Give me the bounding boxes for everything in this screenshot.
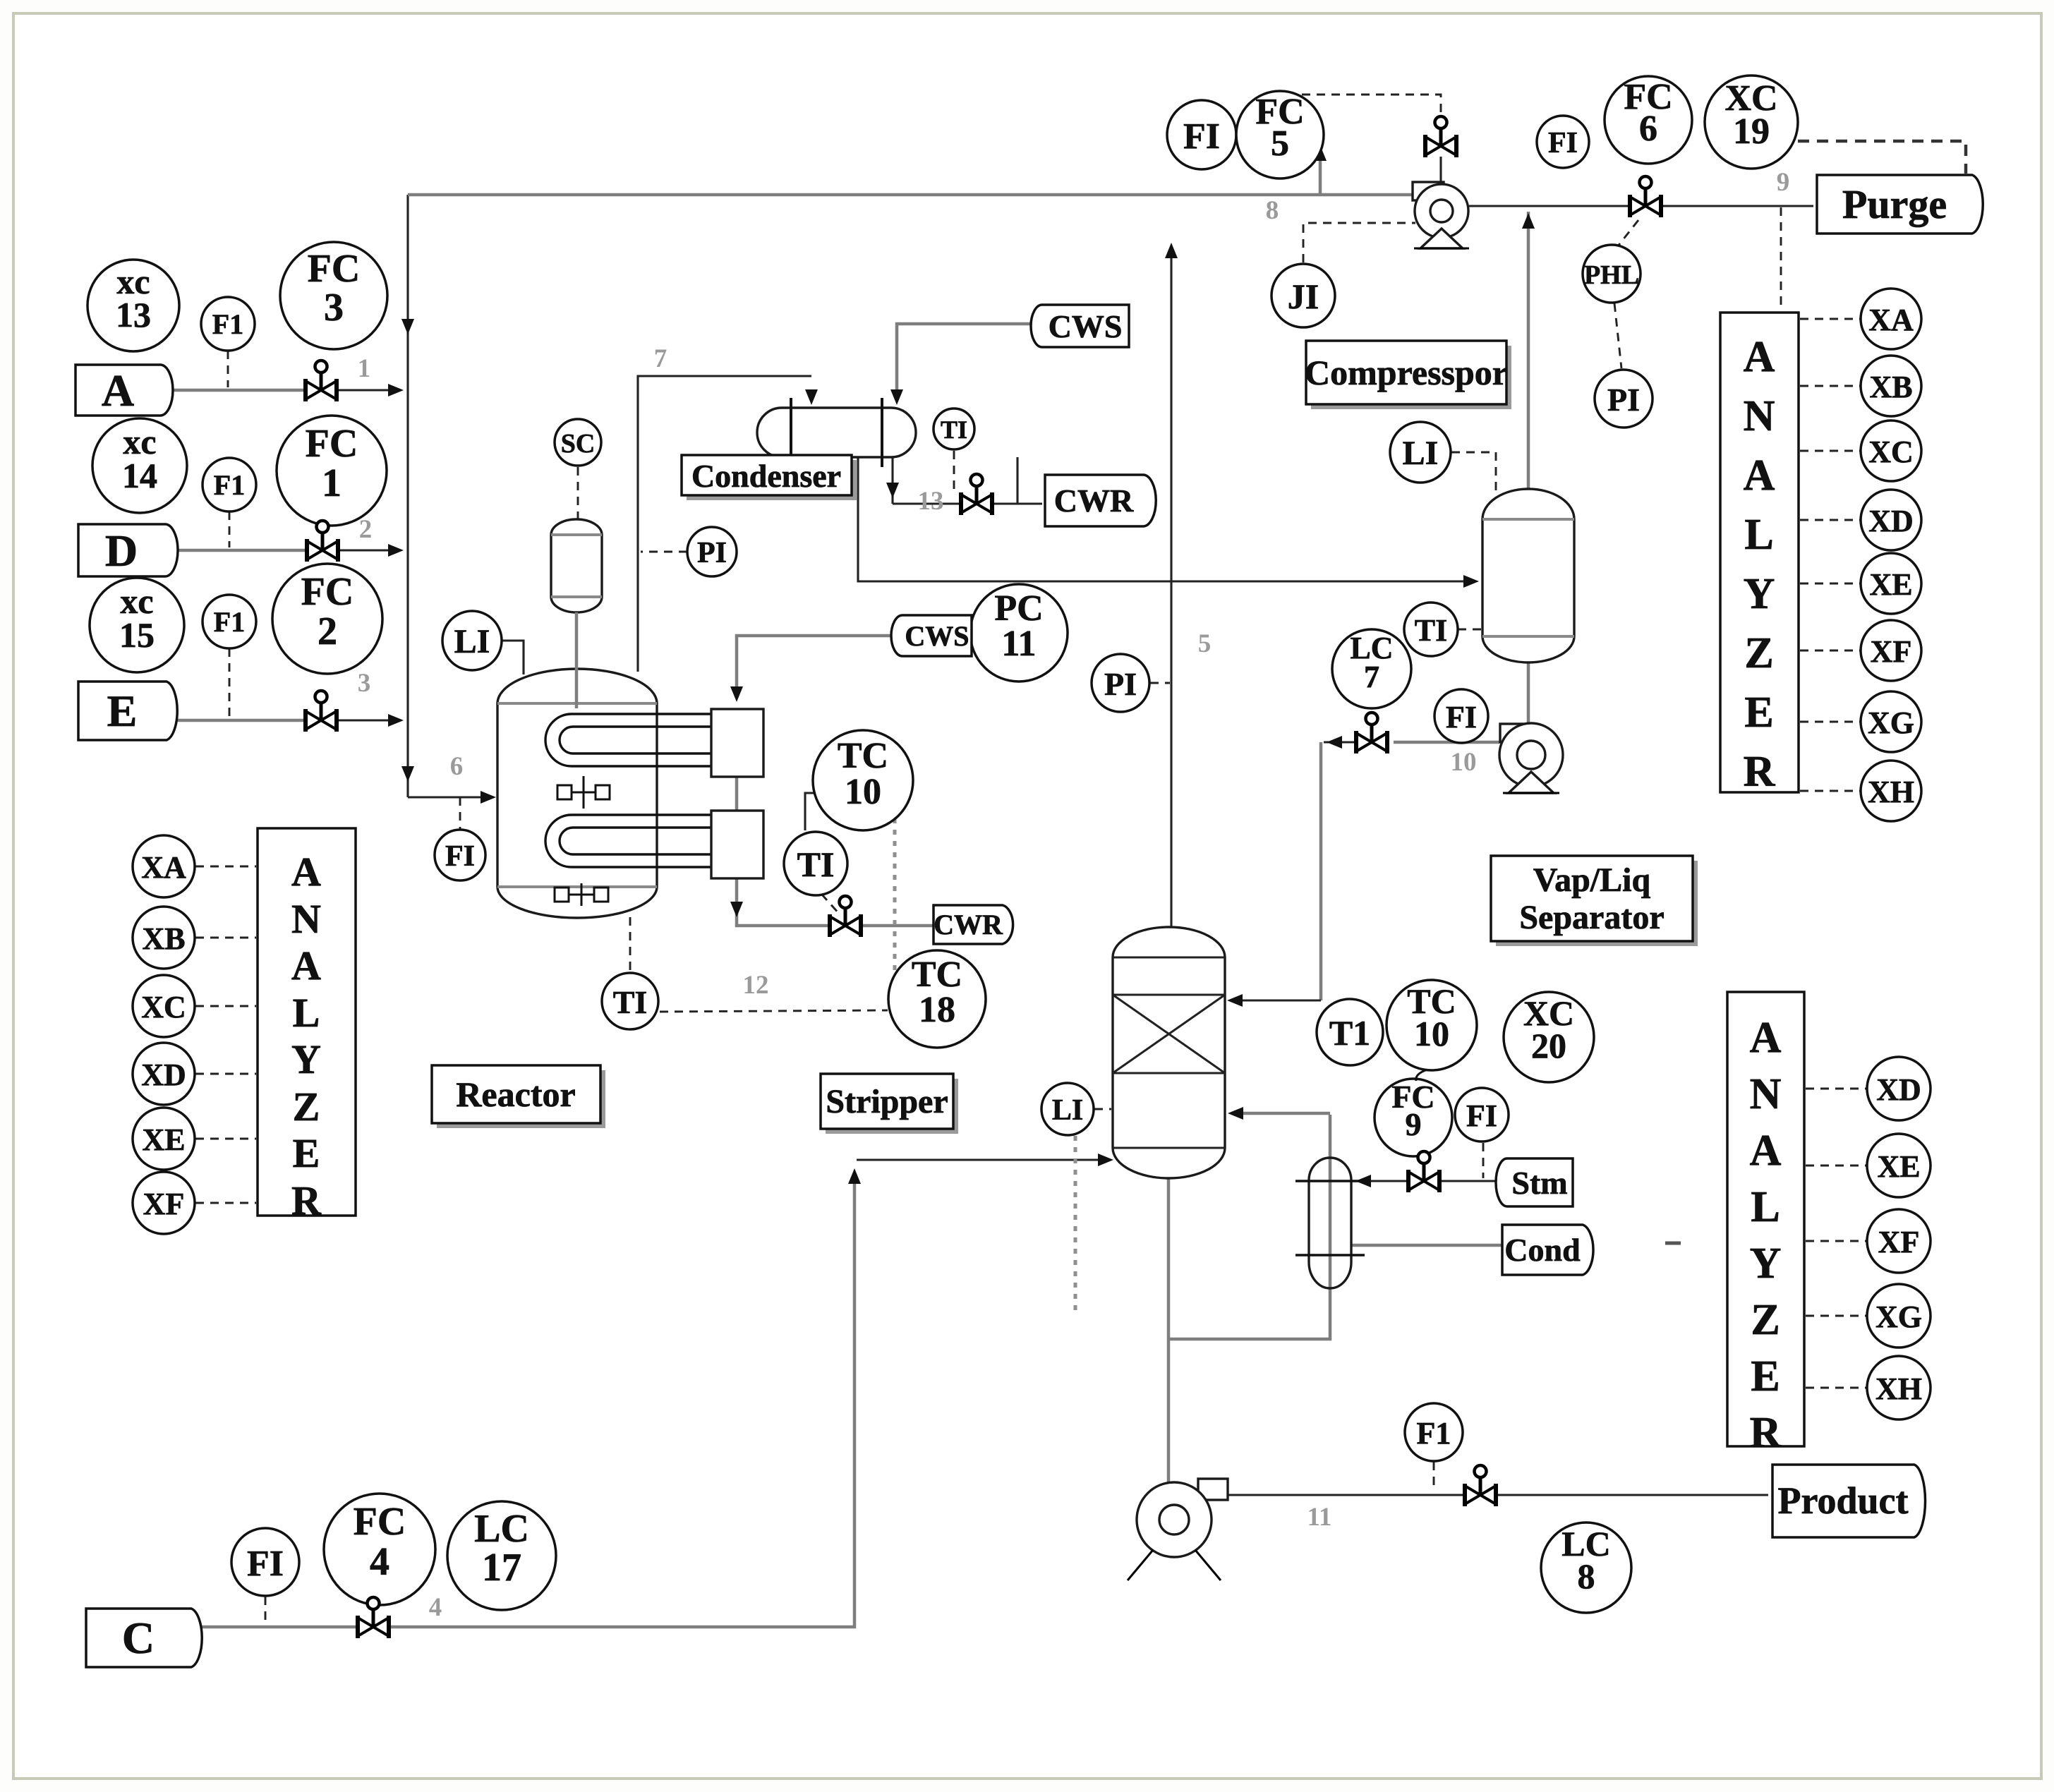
instrument TI condenser bbox=[934, 408, 974, 449]
svg-text:11: 11 bbox=[1307, 1503, 1332, 1532]
svg-text:LC: LC bbox=[474, 1507, 529, 1551]
wire steam valve to reboiler bbox=[1360, 1180, 1408, 1182]
svg-text:A: A bbox=[291, 943, 321, 988]
svg-text:9: 9 bbox=[1777, 168, 1790, 197]
signal TI reactor-cool to valve bbox=[821, 894, 840, 914]
svg-text:Y: Y bbox=[1744, 570, 1775, 618]
signal JI to compressor bbox=[1303, 223, 1415, 262]
svg-text:XE: XE bbox=[1877, 1149, 1920, 1184]
signal FC6 PHL slant bbox=[1617, 220, 1638, 247]
wire condenser CWS line bbox=[897, 324, 1038, 395]
wire separator overhead bbox=[1527, 212, 1530, 489]
svg-text:Stripper: Stripper bbox=[826, 1083, 948, 1120]
signal TC10 to TC18 gray bbox=[893, 818, 897, 991]
svg-text:10: 10 bbox=[1451, 748, 1477, 777]
instrument F1a bbox=[201, 297, 255, 351]
wire feed header vertical x578 bbox=[406, 195, 409, 797]
instrument TC18 bbox=[888, 950, 986, 1048]
svg-text:XH: XH bbox=[1875, 1372, 1922, 1406]
stray mark near Cond bbox=[1665, 1242, 1681, 1245]
instrument XC19 bbox=[1705, 75, 1798, 169]
instrument FI purge bbox=[1537, 116, 1589, 168]
wire feed D gray bbox=[165, 549, 306, 552]
signal TC10 link bbox=[805, 793, 822, 830]
svg-text:A: A bbox=[1744, 452, 1775, 500]
arrow separator overhead tip bbox=[1522, 213, 1535, 229]
svg-text:XA: XA bbox=[141, 850, 186, 885]
wire sep pump outlet bbox=[1394, 741, 1499, 744]
svg-text:6: 6 bbox=[450, 752, 464, 781]
arrow stream 4 up arrow bbox=[848, 1168, 861, 1184]
svg-text:10: 10 bbox=[1414, 1014, 1449, 1053]
svg-text:FC: FC bbox=[301, 570, 354, 614]
arrow steam tip bbox=[1355, 1175, 1371, 1187]
stream tag CWR condenser bbox=[1045, 475, 1156, 526]
svg-text:Z: Z bbox=[1751, 1296, 1780, 1344]
instrument FI reactor bbox=[435, 830, 485, 880]
svg-text:CWR: CWR bbox=[934, 909, 1003, 940]
svg-text:8: 8 bbox=[1578, 1556, 1595, 1596]
valve V feed C bbox=[358, 1597, 389, 1638]
stripper cap lines bbox=[1113, 956, 1225, 958]
signal analyzerR1 stub 3 bbox=[1800, 519, 1860, 521]
wire stripper top feed bbox=[1231, 999, 1321, 1001]
signal analyzerR2 stub 2 bbox=[1806, 1240, 1866, 1242]
instrument XA right1 bbox=[1861, 289, 1921, 349]
signal FI reactor to stream6 bbox=[459, 797, 461, 830]
wire stub under condenser bbox=[1016, 457, 1018, 504]
instrument XC left bbox=[133, 975, 195, 1037]
svg-text:6: 6 bbox=[1639, 109, 1657, 149]
svg-text:CWR: CWR bbox=[1054, 483, 1134, 519]
wire compressor outlet bbox=[1469, 205, 1813, 207]
instrument FC2 bbox=[272, 564, 382, 674]
svg-text:FI: FI bbox=[445, 840, 475, 873]
svg-text:N: N bbox=[1750, 1070, 1782, 1118]
instrument FC5 bbox=[1236, 91, 1324, 178]
instrument LC17 bbox=[447, 1501, 556, 1610]
reactor coil lower U-tube bbox=[545, 815, 711, 867]
signal purge to analyzer1 bbox=[1780, 207, 1782, 311]
svg-text:JI: JI bbox=[1288, 277, 1319, 316]
wire feed A to header bbox=[337, 389, 399, 391]
valve V compressor bypass bbox=[1425, 116, 1456, 157]
instrument XE right2 bbox=[1867, 1134, 1931, 1197]
svg-text:F1: F1 bbox=[214, 469, 245, 501]
signal analyzerR1 stub 2 bbox=[1800, 450, 1860, 452]
stream tag CWS condenser bbox=[1031, 305, 1129, 347]
arrow coil outlet arrow bbox=[730, 902, 743, 917]
wire stream 6 into reactor bbox=[408, 796, 494, 798]
signal PHL to PI bbox=[1614, 303, 1621, 368]
instrument PHL bbox=[1583, 245, 1641, 303]
instrument F1c bbox=[203, 595, 256, 648]
svg-text:FC: FC bbox=[354, 1500, 406, 1544]
instrument TI reactor bottom bbox=[602, 973, 658, 1029]
svg-text:12: 12 bbox=[743, 971, 769, 1000]
signal analyzerR1 stub 7 bbox=[1800, 790, 1860, 792]
svg-text:17: 17 bbox=[482, 1546, 521, 1590]
signal LI stripper tap bbox=[1094, 1108, 1111, 1110]
svg-text:L: L bbox=[293, 990, 320, 1036]
wire coil outlet bbox=[737, 875, 826, 926]
stripper packing X bbox=[1113, 995, 1225, 1073]
arrow CWS into coil box bbox=[730, 686, 743, 702]
instrument XD right2 bbox=[1867, 1057, 1931, 1120]
signal F1 product bbox=[1433, 1462, 1435, 1491]
instrument XH right2 bbox=[1867, 1356, 1931, 1419]
stream tag CWS reactor bbox=[891, 615, 972, 656]
instrument XC14 bbox=[92, 418, 187, 513]
signal TI reactor bottom bbox=[629, 917, 632, 972]
svg-text:FI: FI bbox=[1548, 127, 1578, 159]
wire feed E to header bbox=[337, 719, 399, 721]
svg-text:13: 13 bbox=[116, 295, 151, 334]
svg-text:LI: LI bbox=[1052, 1094, 1083, 1127]
svg-text:A: A bbox=[1750, 1127, 1782, 1175]
svg-text:F1: F1 bbox=[214, 606, 245, 638]
signal FC5 to bypass valve bbox=[1287, 95, 1441, 117]
vessel Vap/Liq Separator shell bbox=[1482, 489, 1574, 662]
svg-text:A: A bbox=[1744, 333, 1775, 381]
valve V purge bbox=[1630, 176, 1661, 217]
arrow to stripper corner arrow bbox=[1327, 736, 1342, 749]
arrow FC5 stub tip bbox=[1314, 145, 1327, 161]
svg-text:Condenser: Condenser bbox=[691, 458, 841, 494]
svg-text:TI: TI bbox=[797, 844, 835, 884]
svg-text:11: 11 bbox=[1001, 624, 1036, 664]
signal TI sep bbox=[1458, 629, 1481, 631]
svg-text:FC: FC bbox=[306, 422, 358, 466]
instrument XC15 bbox=[90, 578, 184, 672]
instrument XF left bbox=[133, 1172, 195, 1234]
wire stripper bottoms bbox=[1167, 1178, 1171, 1484]
svg-text:A: A bbox=[1750, 1014, 1782, 1062]
svg-text:PI: PI bbox=[697, 537, 727, 569]
arrow feed A tip bbox=[388, 384, 404, 396]
svg-text:XD: XD bbox=[1868, 504, 1914, 538]
instrument FI steam bbox=[1455, 1088, 1509, 1142]
signal analyzerR1 stub 5 bbox=[1800, 650, 1860, 652]
vessel Reactor shell bbox=[497, 669, 657, 918]
svg-text:E: E bbox=[1751, 1352, 1780, 1400]
stream tag Purge bbox=[1817, 175, 1983, 234]
svg-text:FI: FI bbox=[1446, 700, 1477, 734]
svg-text:TI: TI bbox=[613, 984, 648, 1020]
valve V2 feed D bbox=[307, 521, 338, 562]
instrument FC3 bbox=[280, 242, 387, 349]
wire valve to corner bbox=[1324, 741, 1356, 743]
signal analyzerR2 stub 4 bbox=[1806, 1387, 1866, 1389]
label Condenser bbox=[682, 455, 857, 500]
svg-text:13: 13 bbox=[918, 487, 944, 516]
valve V steam bbox=[1408, 1151, 1439, 1192]
signal analyzerR1 stub 6 bbox=[1800, 721, 1860, 723]
wire stream 7 reactor overhead bbox=[638, 376, 811, 672]
instrument LC7 bbox=[1332, 629, 1411, 708]
signal analyzerR1 stub 4 bbox=[1800, 583, 1860, 585]
signal F1a to feed A bbox=[227, 351, 229, 387]
svg-text:XG: XG bbox=[1875, 1300, 1922, 1334]
instrument FC1 bbox=[277, 416, 387, 526]
arrow condenser outlet arrow bbox=[886, 483, 899, 498]
instrument TC10 reactor bbox=[813, 730, 913, 830]
wire line to CWR1 bbox=[893, 502, 1042, 504]
signal analyzerL stub 4 bbox=[195, 1138, 256, 1140]
arrow feed D tip bbox=[388, 544, 404, 557]
signal analyzerL stub 3 bbox=[195, 1073, 256, 1075]
svg-text:F1: F1 bbox=[212, 308, 243, 340]
svg-text:TC: TC bbox=[838, 736, 888, 776]
svg-text:1: 1 bbox=[322, 461, 342, 505]
stream tag E bbox=[78, 682, 177, 740]
condenser tube sheet left bbox=[790, 398, 792, 467]
signal analyzerL stub 5 bbox=[195, 1202, 256, 1204]
svg-text:D: D bbox=[105, 526, 138, 576]
wire TC10 stripper to FC9 bbox=[1416, 1070, 1427, 1081]
wire stream 10 down bbox=[1319, 742, 1323, 1000]
svg-text:E: E bbox=[293, 1130, 320, 1176]
instrument XC13 bbox=[87, 260, 179, 351]
wire recycle top header bbox=[408, 193, 1413, 197]
instrument XC right1 bbox=[1861, 420, 1921, 481]
reactor agitator mark lower bbox=[555, 883, 608, 906]
label Compresspor bbox=[1305, 341, 1511, 409]
svg-text:3: 3 bbox=[324, 286, 344, 329]
svg-text:L: L bbox=[1744, 511, 1773, 559]
reactor agitator mark upper bbox=[557, 776, 610, 809]
instrument FC6 bbox=[1605, 76, 1692, 164]
signal analyzerR2 stub 3 bbox=[1806, 1315, 1866, 1317]
signal analyzerR1 stub 1 bbox=[1800, 385, 1860, 387]
valve V reactor CWR bbox=[830, 896, 861, 937]
label Stripper bbox=[821, 1074, 958, 1134]
valve V LC7 letdown bbox=[1356, 713, 1387, 753]
wire boilup branch bbox=[1168, 1115, 1330, 1339]
instrument T1 bbox=[1317, 999, 1383, 1065]
svg-text:PC: PC bbox=[994, 588, 1043, 629]
instrument SC bbox=[555, 419, 601, 466]
instrument TI separator bbox=[1404, 603, 1458, 656]
separator pump symbol bbox=[1499, 723, 1563, 793]
wire boilup return bbox=[1233, 1112, 1330, 1115]
stream tag D bbox=[78, 524, 178, 576]
svg-text:LI: LI bbox=[1403, 435, 1439, 472]
signal XC19 to purge box bbox=[1798, 141, 1966, 174]
svg-text:PI: PI bbox=[1607, 382, 1640, 418]
svg-text:XE: XE bbox=[1869, 567, 1912, 602]
reactor coil box lower bbox=[711, 811, 763, 878]
arrow separator feed tip bbox=[1463, 575, 1479, 588]
svg-text:Product: Product bbox=[1778, 1479, 1909, 1522]
reboiler tray lines bbox=[1295, 1180, 1365, 1182]
wire reactor CWS line bbox=[737, 636, 898, 694]
signal F1b to feed D bbox=[229, 511, 231, 547]
signal FI feed C bbox=[265, 1597, 267, 1624]
svg-text:15: 15 bbox=[119, 615, 155, 655]
instrument XF right2 bbox=[1867, 1209, 1931, 1273]
instrument XE left bbox=[133, 1108, 195, 1170]
instrument XD left bbox=[133, 1043, 195, 1105]
instrument FI feed C bbox=[231, 1528, 299, 1596]
svg-text:7: 7 bbox=[1364, 660, 1379, 694]
signal analyzerR2 stub 0 bbox=[1806, 1088, 1866, 1090]
svg-text:4: 4 bbox=[370, 1540, 389, 1584]
valve V3 feed E bbox=[306, 691, 337, 732]
wire LI tap to reactor dome bbox=[502, 641, 524, 674]
svg-text:T1: T1 bbox=[1329, 1013, 1370, 1053]
wire feed D to header bbox=[339, 549, 399, 551]
signal analyzerL stub 1 bbox=[195, 937, 256, 939]
instrument F1 product bbox=[1405, 1403, 1463, 1461]
arrow CWS into condenser bbox=[890, 389, 903, 405]
arrow stream 6 tip bbox=[481, 791, 496, 804]
svg-text:R: R bbox=[1750, 1409, 1782, 1457]
svg-text:CWS: CWS bbox=[1049, 308, 1123, 344]
instrument F1b bbox=[203, 458, 256, 511]
arrow stream 4 tip bbox=[1098, 1154, 1113, 1166]
vessel Condenser shell bbox=[757, 408, 916, 457]
instrument LI separator bbox=[1390, 422, 1451, 483]
svg-text:Reactor: Reactor bbox=[456, 1074, 575, 1114]
vessel SC surge drum bbox=[551, 519, 602, 612]
instrument PC11 bbox=[970, 584, 1068, 682]
svg-text:Separator: Separator bbox=[1519, 899, 1664, 936]
svg-text:N: N bbox=[1744, 392, 1775, 440]
stream tag A bbox=[75, 365, 173, 416]
svg-text:TI: TI bbox=[941, 416, 967, 444]
svg-text:XD: XD bbox=[141, 1058, 186, 1092]
signal analyzerR1 stub 0 bbox=[1800, 318, 1860, 320]
wire coil interbox bbox=[735, 771, 739, 813]
arrow feed E tip bbox=[388, 714, 404, 727]
svg-text:E: E bbox=[107, 686, 138, 736]
wire bypass valve to compressor bbox=[1439, 157, 1442, 183]
svg-text:8: 8 bbox=[1266, 196, 1279, 225]
arrow boilup return tip bbox=[1228, 1107, 1243, 1120]
signal F1c to feed E bbox=[229, 648, 231, 718]
instrument PI condenser bbox=[687, 527, 737, 576]
svg-text:Purge: Purge bbox=[1842, 181, 1947, 227]
signal PI stream5 bbox=[1150, 682, 1170, 684]
svg-text:A: A bbox=[291, 849, 321, 895]
svg-text:TC: TC bbox=[912, 955, 962, 995]
svg-text:L: L bbox=[1751, 1183, 1780, 1231]
instrument LC8 bbox=[1541, 1522, 1631, 1613]
reactor coil upper U-tube bbox=[545, 714, 711, 766]
instrument LI stripper bbox=[1041, 1083, 1094, 1135]
condenser tube sheet right bbox=[881, 398, 883, 467]
svg-text:F1: F1 bbox=[1417, 1416, 1451, 1451]
signal TI cond to valve13 bbox=[953, 451, 955, 494]
wire FC5 stub bbox=[1319, 150, 1322, 195]
signal analyzerR2 stub 1 bbox=[1806, 1165, 1866, 1167]
svg-text:2: 2 bbox=[318, 610, 337, 653]
instrument JI bbox=[1271, 264, 1335, 327]
analyzer box right lower bbox=[1727, 992, 1804, 1457]
signal SC to drum bbox=[577, 467, 579, 519]
instrument XC20 bbox=[1504, 992, 1594, 1082]
instrument PI purge bbox=[1595, 370, 1653, 428]
svg-text:Cond: Cond bbox=[1504, 1232, 1581, 1268]
svg-text:XB: XB bbox=[142, 921, 185, 956]
stream tag C bbox=[86, 1609, 202, 1667]
analyzer box left bbox=[258, 828, 356, 1223]
instrument TI reactor cooling bbox=[784, 832, 847, 895]
svg-text:FI: FI bbox=[1183, 116, 1220, 157]
svg-text:XD: XD bbox=[1876, 1072, 1921, 1107]
svg-text:Vap/Liq: Vap/Liq bbox=[1533, 861, 1651, 899]
instrument FI recycle bbox=[1167, 100, 1236, 169]
signal LI stripper down gray bbox=[1074, 1136, 1077, 1314]
svg-text:10: 10 bbox=[845, 772, 881, 812]
instrument XB left bbox=[133, 907, 195, 969]
vessel Reactor cap lines bbox=[497, 702, 657, 705]
wire feed E gray bbox=[167, 719, 305, 722]
wire feed A gray bbox=[160, 389, 305, 392]
signal stream 12 line bbox=[660, 1010, 888, 1012]
instrument FC9 bbox=[1375, 1079, 1452, 1156]
vessel Stripper column shell bbox=[1113, 927, 1225, 1178]
svg-text:R: R bbox=[1744, 748, 1776, 796]
svg-text:CWS: CWS bbox=[905, 620, 969, 652]
compressor symbol bbox=[1413, 182, 1469, 248]
instrument XH right1 bbox=[1861, 761, 1921, 821]
instrument XE right1 bbox=[1861, 553, 1921, 614]
svg-text:R: R bbox=[291, 1177, 322, 1223]
stripper section lines bbox=[1113, 993, 1225, 995]
instrument XD right1 bbox=[1861, 490, 1921, 550]
signal LI sep bbox=[1451, 452, 1496, 491]
wire coil to CWR2 bbox=[826, 924, 936, 928]
valve V1 feed A bbox=[306, 361, 337, 401]
svg-text:PHL: PHL bbox=[1584, 260, 1639, 290]
svg-text:Z: Z bbox=[293, 1084, 320, 1130]
svg-text:XE: XE bbox=[142, 1122, 185, 1157]
svg-text:5: 5 bbox=[1198, 629, 1212, 658]
arrow feed header down upper bbox=[401, 319, 414, 334]
svg-text:LI: LI bbox=[454, 623, 490, 660]
svg-text:20: 20 bbox=[1531, 1026, 1566, 1065]
instrument LI reactor bbox=[442, 611, 502, 670]
label Reactor bbox=[432, 1065, 605, 1128]
stream tag Product bbox=[1772, 1465, 1926, 1537]
svg-text:FC: FC bbox=[308, 247, 361, 291]
arrow stream 5 tip bbox=[1165, 243, 1178, 258]
svg-text:XA: XA bbox=[1868, 303, 1914, 337]
svg-text:Y: Y bbox=[291, 1036, 321, 1082]
signal analyzerL stub 2 bbox=[195, 1005, 256, 1007]
wire reboiler to Cond bbox=[1351, 1244, 1502, 1247]
svg-text:5: 5 bbox=[1271, 123, 1289, 164]
svg-text:N: N bbox=[291, 896, 321, 942]
wire product pump outlet bbox=[1228, 1494, 1768, 1496]
svg-text:Z: Z bbox=[1744, 629, 1773, 677]
svg-text:TI: TI bbox=[1415, 613, 1447, 648]
wire feed C gray bbox=[191, 1625, 357, 1629]
svg-text:SC: SC bbox=[561, 429, 596, 459]
wire SC drum to reactor dome bbox=[575, 612, 579, 708]
reactor coil box upper bbox=[711, 709, 763, 777]
instrument XG right2 bbox=[1867, 1284, 1931, 1348]
svg-text:XF: XF bbox=[1878, 1225, 1920, 1259]
svg-text:C: C bbox=[122, 1613, 155, 1663]
wire stream 4 run bbox=[389, 1173, 854, 1627]
signal FI steam bbox=[1482, 1143, 1485, 1178]
svg-text:XC: XC bbox=[141, 990, 186, 1024]
svg-text:Compresspor: Compresspor bbox=[1305, 353, 1508, 392]
instrument XB right1 bbox=[1861, 356, 1921, 416]
